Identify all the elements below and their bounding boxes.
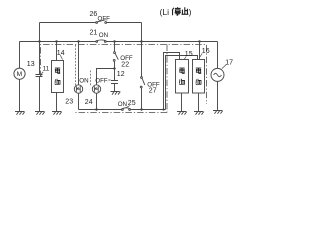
gate line MOSFET 23 (dashed) [75, 45, 77, 86]
svg-text:25: 25 [128, 100, 136, 107]
kanji battery glyphs in box 14 [55, 68, 60, 85]
wire drop left end of top rail [39, 23, 41, 42]
svg-text:17: 17 [225, 60, 233, 67]
wire to mid ground [114, 84, 116, 92]
ground below box 15 [177, 112, 187, 115]
svg-text:23: 23 [65, 98, 73, 105]
switch 21 contacts [96, 41, 98, 43]
contact 12-terminal (plates) [111, 81, 118, 84]
svg-text:14: 14 [57, 50, 65, 57]
wire below switch 22 [114, 61, 116, 80]
ground mid [111, 92, 121, 95]
switch 26 contacts [96, 22, 98, 24]
switch 25 blade (closed, ON) [123, 107, 130, 110]
svg-text:ON: ON [99, 32, 108, 39]
svg-text:ON: ON [118, 101, 127, 108]
svg-text:12: 12 [117, 71, 125, 78]
svg-text:M: M [17, 71, 23, 78]
node junction (drain wire joins) [113, 67, 115, 69]
ground below AC source [213, 111, 223, 114]
switch 26 blade (open) [97, 20, 106, 22]
switch 25 contacts [122, 109, 124, 111]
wire contact-13 branch lower [39, 77, 41, 112]
wire top rail (switch 26 line) [40, 22, 142, 24]
wire motor branch upper [19, 42, 21, 69]
dash-dot divider (left edge of unit 12) [166, 45, 168, 113]
wire box-14 feed [56, 42, 58, 61]
switch 22 contacts [114, 52, 116, 54]
leader line label 25 [127, 106, 130, 108]
ground below motor [15, 112, 25, 115]
kanji battery glyphs in box 16 [196, 68, 201, 85]
svg-text:26: 26 [90, 11, 98, 18]
svg-text:(Li: (Li [160, 7, 170, 17]
wire riser A to battery 15 [164, 53, 180, 110]
node junction switch-27 wire [140, 108, 142, 110]
svg-text:ON: ON [79, 78, 88, 85]
svg-text:OFF: OFF [98, 15, 111, 22]
kanji 止 (drawn) [182, 7, 189, 14]
wire below AC source [217, 81, 219, 110]
wire MOSFET-23 drain [78, 42, 80, 85]
wire below box 16 [198, 93, 200, 111]
wire AC source drop [217, 42, 219, 69]
ground below contact 13 [35, 112, 45, 115]
svg-text:): ) [189, 7, 192, 17]
dash-dot enclosure box 11 (left unit outline) [41, 45, 207, 113]
kanji 停 (drawn) [172, 7, 181, 15]
svg-text:22: 22 [121, 61, 129, 68]
kanji battery glyphs in box 15 [179, 68, 184, 85]
leader line label 11 [41, 72, 43, 77]
switch 27 wire lower [141, 88, 143, 110]
svg-text:11: 11 [43, 66, 50, 73]
wire main rail [20, 41, 218, 43]
wire contact-13 branch upper [39, 42, 41, 75]
wire switch-22 branch [114, 42, 116, 53]
transistor Q23 (FET) [74, 85, 82, 93]
leader line label 16 [200, 53, 202, 56]
svg-text:OFF: OFF [95, 78, 108, 85]
node junction riser A [162, 108, 164, 110]
wire bottom bus [79, 109, 166, 111]
node junction Q24 source [95, 108, 97, 110]
svg-text:27: 27 [149, 88, 157, 95]
battery box 16 [193, 60, 205, 94]
wire box-16 rail feed [199, 42, 201, 60]
leader line label 17 [222, 65, 226, 69]
leader tick OFF Q24 [108, 79, 110, 81]
contact 13 (plates) [36, 75, 43, 77]
box 14 (battery block) [52, 61, 64, 93]
leader line label 14 [60, 55, 62, 59]
switch 27 contacts [141, 77, 143, 79]
svg-text:24: 24 [85, 99, 93, 106]
wire below box 15 [181, 93, 183, 111]
svg-text:13: 13 [27, 61, 35, 68]
svg-text:21: 21 [90, 30, 98, 37]
wire drop right end of top rail to switch 27 [141, 23, 143, 42]
wire motor branch lower [19, 79, 21, 111]
motor M circle [14, 68, 25, 79]
switch 27 blade (open) [142, 78, 145, 85]
ground below box 14 [52, 112, 62, 115]
wire MOSFET-24 drain (corner to switch-22 wire) [97, 69, 115, 86]
wire riser B to battery 16 [166, 56, 198, 110]
battery box 15 [176, 60, 189, 94]
AC source 17 circle [211, 68, 224, 81]
ground below box 16 [194, 112, 204, 115]
leader line label 15 [184, 56, 186, 59]
switch 21 blade (closed, ON) [97, 39, 105, 42]
gate line MOSFET 24 (dashed) [90, 71, 92, 87]
transistor Q24 (FET) [92, 85, 100, 93]
wire MOSFET-24 source [96, 93, 98, 109]
svg-text:15: 15 [185, 51, 193, 58]
wire box-14 lower [56, 93, 58, 112]
switch 22 blade (open) [115, 53, 118, 60]
AC sine symbol [214, 73, 222, 76]
switch 27 wire upper [141, 42, 143, 77]
node junction dots on main rail [38, 40, 200, 42]
svg-text:16: 16 [202, 48, 210, 55]
wire MOSFET-23 source [78, 93, 80, 109]
